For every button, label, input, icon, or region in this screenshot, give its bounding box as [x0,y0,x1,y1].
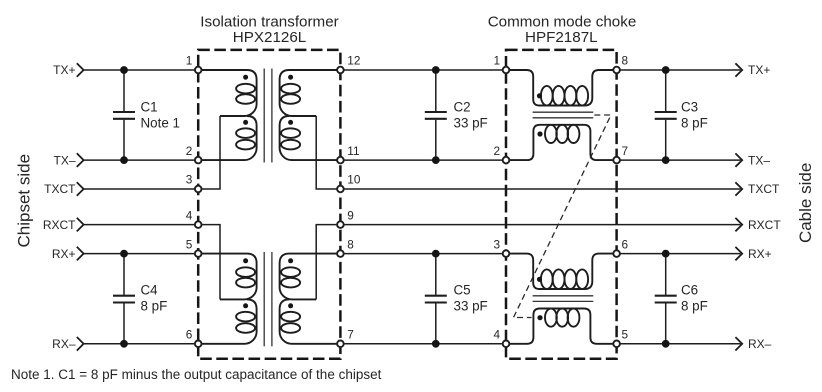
arrow RX- right [735,337,742,350]
junction dot C3 bottom [662,156,670,164]
choke winding 3 (pins 3-6) [506,254,617,289]
svg-text:4: 4 [186,208,193,222]
RX transformer right winding lower coil [280,299,341,343]
svg-text:12: 12 [347,54,360,68]
svg-text:8: 8 [622,54,629,68]
junction dot C3 top [662,66,670,74]
wire TX+ left [84,69,199,71]
common mode choke dashed boundary box [506,50,617,359]
TX transformer right winding upper coil [280,70,341,116]
wire RX+ mid (pin8 to choke pin3) [340,253,506,255]
wire TXCT left [84,188,199,190]
arrow TX- left [77,153,84,167]
svg-text:C4: C4 [141,282,159,297]
polarity dot RX right upper [288,258,293,263]
svg-text:8: 8 [347,237,354,251]
wire TXCT right (pin10 through choke box to cable side) [340,188,740,190]
choke winding 1 (pins 1-8) [506,70,617,106]
pin 7 (choke) [613,157,620,164]
svg-text:5: 5 [186,237,193,251]
TX transformer core [263,69,265,163]
capacitor C5 top lead [435,254,437,295]
pin 2 (choke) [503,157,510,164]
junction dot C6 bottom [662,340,670,348]
polarity dot choke winding 1 [537,93,542,98]
junction dot C1 top [120,66,128,74]
svg-text:8 pF: 8 pF [681,115,708,130]
svg-text:2: 2 [186,144,193,158]
capacitor C3 top lead [665,70,667,111]
capacitor C5 bottom lead [435,304,437,344]
polarity dot RX left lower [243,303,248,308]
wire RX+ right [617,253,741,255]
RX transformer right winding upper coil [280,254,341,300]
arrow TX+ right [735,63,742,76]
svg-text:3: 3 [186,173,193,187]
svg-text:C3: C3 [681,99,698,114]
wire TX- mid (pin11 to choke pin2) [340,159,506,161]
pin 2 (transformer) [195,157,202,164]
svg-text:10: 10 [347,173,361,187]
svg-text:5: 5 [622,328,629,342]
wire TX- right [617,159,741,161]
svg-text:33 pF: 33 pF [454,115,488,130]
svg-text:RXCT: RXCT [43,218,76,232]
capacitor C1 bottom lead [123,120,125,160]
junction dot C5 top [432,250,440,258]
wire RXCT left [84,224,199,226]
RX transformer left winding upper coil [198,254,256,300]
svg-text:8 pF: 8 pF [681,298,708,313]
choke coupling dashed line [514,115,612,318]
pin 11 (transformer) [337,157,344,164]
pin 5 (transformer) [195,250,202,257]
svg-text:7: 7 [622,144,629,158]
isolation transformer dashed boundary box [198,50,340,359]
RX transformer left winding lower coil [198,299,256,343]
svg-text:33 pF: 33 pF [454,298,488,313]
capacitor C5 plates [425,295,447,297]
svg-text:RX+: RX+ [52,247,76,261]
svg-text:7: 7 [347,328,354,342]
capacitor C2 plates [425,111,447,113]
svg-text:4: 4 [493,328,500,342]
wire RX- left [84,343,199,345]
wire TX- left [84,159,199,161]
capacitor C4 top lead [123,254,125,295]
svg-text:RX+: RX+ [748,247,772,261]
svg-text:C2: C2 [454,99,471,114]
svg-text:RX–: RX– [748,337,772,351]
capacitor C6 top lead [665,254,667,295]
capacitor C3 plates [655,111,677,113]
junction dot C2 top [432,66,440,74]
svg-text:9: 9 [347,208,354,222]
capacitor C6 bottom lead [665,304,667,344]
capacitor C6 plates [655,295,677,297]
polarity dot RX right lower [288,303,293,308]
polarity dot TX left lower [243,120,248,125]
RX transformer core [263,252,265,346]
junction dot C4 top [120,250,128,258]
capacitor C4 bottom lead [123,304,125,344]
svg-text:TXCT: TXCT [44,182,76,196]
arrow RX+ left [77,247,84,261]
pin 4 (choke) [503,341,510,348]
svg-text:Cable side: Cable side [796,163,815,243]
junction dot C6 top [662,250,670,258]
capacitor C1 top lead [123,70,125,111]
svg-text:TX–: TX– [53,153,75,167]
wire RXCT right (pin9 through choke box to cable side) [340,224,740,226]
svg-text:C6: C6 [681,282,698,297]
polarity dot TX right upper [288,75,293,80]
svg-text:Chipset side: Chipset side [14,154,33,248]
svg-text:HPF2187L: HPF2187L [525,29,598,46]
pin 8 (transformer) [337,250,344,257]
svg-text:3: 3 [493,237,500,251]
capacitor C4 plates [113,295,135,297]
pin 5 (choke) [613,341,620,348]
capacitor C2 bottom lead [435,120,437,160]
svg-text:TX–: TX– [748,153,770,167]
pin 7 (transformer) [337,341,344,348]
svg-text:6: 6 [622,237,629,251]
choke winding 2 (pins 2-7) [506,125,617,160]
arrow RXCT right [735,218,742,231]
svg-text:C5: C5 [454,282,471,297]
wire TX center tap left (pin3 riser) [198,116,220,189]
svg-text:2: 2 [493,144,500,158]
wire RX center tap right (pin9 dropper) [316,225,340,300]
wire RX+ left [84,253,199,255]
pin 3 (transformer) [195,186,202,193]
title: isolation transformer [200,13,338,46]
svg-text:1: 1 [493,54,500,68]
svg-text:Note 1: Note 1 [141,115,180,130]
svg-text:HPX2126L: HPX2126L [233,29,306,46]
pin 1 (choke) [503,67,510,74]
pin 9 (transformer) [337,221,344,228]
pin 4 (transformer) [195,221,202,228]
capacitor C1 plates [113,111,135,113]
arrow TX- right [735,153,742,166]
choke core bottom [533,295,594,297]
polarity dot choke winding 3 [537,277,542,282]
polarity dot TX right lower [288,120,293,125]
pin 6 (choke) [613,250,620,257]
svg-text:Note 1. C1 = 8 pF minus the ou: Note 1. C1 = 8 pF minus the output capac… [11,367,382,382]
junction dot C2 bottom [432,156,440,164]
wire RX center tap left (pin4 dropper) [198,225,220,300]
TX transformer left winding upper coil [198,70,256,116]
wire RX- right [617,343,741,345]
TX transformer left winding lower coil [198,116,256,160]
svg-text:1: 1 [186,54,193,68]
svg-text:TX+: TX+ [53,63,75,77]
arrow RXCT left [77,218,84,232]
wire TX center tap right (pin10 riser) [316,116,340,189]
svg-text:RXCT: RXCT [748,218,781,232]
arrow TXCT right [735,182,742,195]
arrow TXCT left [77,182,84,196]
capacitor C2 top lead [435,70,437,111]
capacitor C3 bottom lead [665,120,667,160]
pin 6 (transformer) [195,341,202,348]
polarity dot TX left upper [243,75,248,80]
junction dot C1 bottom [120,156,128,164]
wire TX+ mid (pin12 to choke pin1) [340,69,506,71]
arrow RX+ right [735,247,742,260]
svg-text:RX–: RX– [52,337,76,351]
polarity dot RX left upper [243,258,248,263]
svg-text:TX+: TX+ [748,63,770,77]
junction dot C5 bottom [432,340,440,348]
junction dot C4 bottom [120,340,128,348]
wire TX+ right [617,69,741,71]
arrow TX+ left [77,63,84,77]
svg-text:8 pF: 8 pF [141,298,168,313]
pin 1 (transformer) [195,67,202,74]
wire RX- mid (pin7 to choke pin4) [340,343,506,345]
pin 3 (choke) [503,250,510,257]
svg-text:11: 11 [347,144,359,158]
polarity dot choke winding 4 [537,315,542,320]
pin 8 (choke) [613,67,620,74]
polarity dot choke winding 2 [537,131,542,136]
arrow RX- left [77,337,84,351]
svg-text:Isolation transformer: Isolation transformer [200,13,338,30]
title: common mode choke [488,13,637,46]
svg-text:Common mode choke: Common mode choke [488,13,637,30]
pin 10 (transformer) [337,186,344,193]
TX transformer right winding lower coil [280,116,341,160]
svg-text:TXCT: TXCT [748,182,780,196]
choke winding 4 (pins 4-5) [506,309,617,344]
svg-text:6: 6 [186,328,193,342]
choke core top [533,111,594,113]
svg-text:C1: C1 [141,99,158,114]
pin 12 (transformer) [337,67,344,74]
